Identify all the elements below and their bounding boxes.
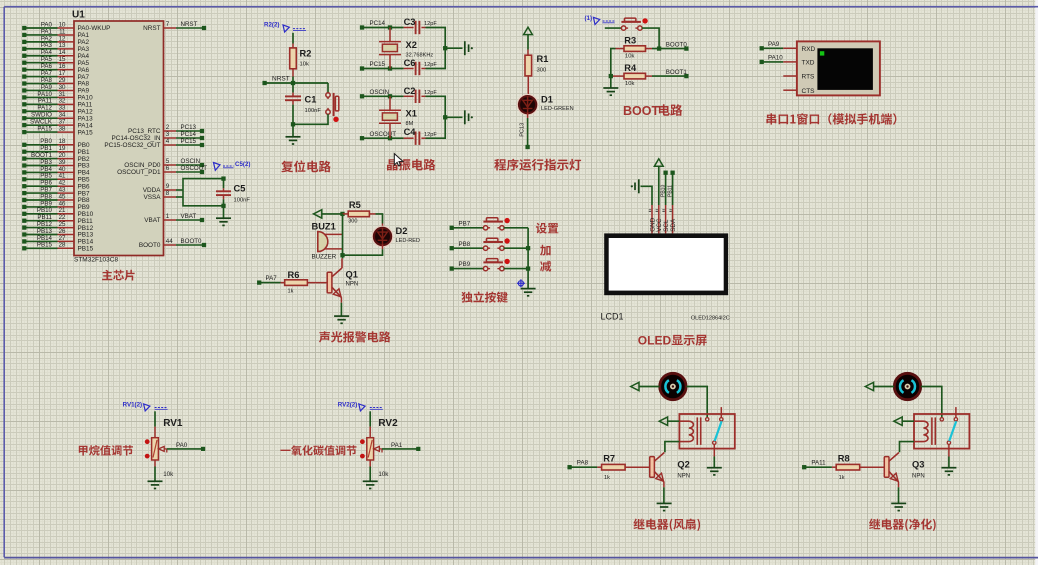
wires PC14/PC15 to X2 caps	[360, 20, 404, 70]
ground below C5	[216, 218, 231, 225]
svg-text:Q2: Q2	[677, 459, 689, 469]
wire R1 to D1	[527, 76, 529, 97]
svg-text:PB15: PB15	[78, 246, 94, 253]
label 串口1窗口（模拟手机端）	[766, 113, 896, 125]
svg-text:PA8: PA8	[41, 77, 53, 84]
wire R2 to NRST node	[292, 69, 294, 83]
capacitor C5 100nF	[216, 176, 250, 217]
svg-text:Q3: Q3	[912, 459, 924, 469]
svg-text:12pF: 12pF	[424, 90, 437, 96]
label 加	[540, 245, 551, 256]
svg-text:PA9: PA9	[768, 41, 780, 48]
wire button to C1 bottom	[293, 114, 328, 124]
svg-text:PA3: PA3	[41, 42, 53, 49]
svg-text:BUZ1: BUZ1	[312, 222, 336, 232]
capacitor C2 12pF	[404, 86, 438, 103]
svg-text:4: 4	[166, 138, 170, 145]
resistor R6 1k	[257, 270, 327, 295]
motor (fan) Q2	[660, 373, 686, 399]
svg-text:PC14: PC14	[181, 131, 197, 138]
wire buzzer column	[340, 214, 344, 257]
svg-text:C4: C4	[404, 127, 417, 137]
svg-text:VBAT: VBAT	[181, 213, 197, 220]
OLED display LCD1 body	[604, 233, 728, 295]
svg-text:OSCIN_PD0: OSCIN_PD0	[124, 162, 161, 169]
label OLED显示屏	[638, 334, 707, 348]
wire RV1 to ground	[154, 460, 156, 481]
push button PB8	[450, 238, 529, 250]
ground (BOOT divider)	[603, 88, 618, 95]
svg-text:PA2: PA2	[41, 35, 53, 42]
svg-text:PB7: PB7	[459, 220, 471, 227]
serial terminal (virtual) with screen	[797, 41, 880, 95]
svg-text:NPN: NPN	[677, 473, 690, 479]
transistor Q3 NPN	[884, 453, 924, 482]
svg-text:300: 300	[348, 218, 357, 224]
wire flag to RV1	[154, 411, 156, 437]
svg-text:RXD: RXD	[802, 46, 816, 53]
svg-text:LCD1: LCD1	[601, 312, 624, 322]
svg-text:C3: C3	[404, 17, 416, 27]
svg-text:C2: C2	[404, 86, 416, 96]
svg-text:C6: C6	[404, 58, 416, 68]
ground (relay Q2)	[707, 468, 722, 475]
label OLED12864I2C	[691, 316, 730, 322]
power arrow relay coil Q2	[659, 417, 679, 425]
U1 left pins PA0-PA15 PB0-PB15 with wires and net labels	[22, 21, 110, 252]
mouse cursor	[394, 154, 403, 166]
wires OSCIN/OSCOUT to X1 caps	[360, 89, 404, 140]
svg-text:OSCIN: OSCIN	[370, 89, 390, 96]
svg-text:RV1: RV1	[163, 418, 183, 429]
svg-text:OLED12864I2C: OLED12864I2C	[691, 316, 730, 322]
ground (Q1)	[334, 316, 349, 323]
capacitor C6 12pF	[404, 58, 438, 75]
resistor R3 10k	[616, 36, 653, 60]
svg-text:12pF: 12pF	[424, 62, 437, 68]
svg-text:10k: 10k	[163, 471, 174, 478]
svg-text:C5(2): C5(2)	[235, 161, 250, 168]
svg-text:PA2: PA2	[78, 39, 90, 46]
ground (Q2 emitter)	[657, 503, 672, 510]
label 减	[540, 261, 551, 272]
svg-text:30: 30	[59, 84, 66, 91]
transistor Q1 NPN	[327, 268, 358, 297]
diode D1 LED-GREEN	[517, 94, 574, 116]
svg-text:BOOT1: BOOT1	[666, 69, 688, 76]
svg-text:1k: 1k	[288, 289, 294, 295]
label 独立按键	[461, 292, 507, 303]
svg-text:PB9: PB9	[459, 261, 471, 268]
wire R3-R4 left rail	[611, 49, 616, 88]
svg-text:Q1: Q1	[346, 269, 358, 279]
push button PB7	[450, 218, 529, 230]
label 设置	[536, 223, 559, 234]
svg-text:PA7: PA7	[266, 275, 278, 282]
net BOOT1 wire	[652, 69, 689, 78]
svg-text:29: 29	[59, 77, 66, 84]
svg-text:12: 12	[59, 35, 66, 42]
svg-text:NRST: NRST	[181, 21, 198, 28]
crystal X2 32.768KHz	[379, 25, 433, 70]
power arrow (D1)	[524, 27, 533, 49]
svg-text:RV2: RV2	[378, 418, 398, 429]
svg-text:NPN: NPN	[912, 473, 925, 479]
wire flag to R2	[292, 33, 294, 48]
wire button to BOOT0 net	[642, 28, 659, 48]
ground (buttons)	[521, 289, 536, 296]
svg-text:1k: 1k	[839, 475, 845, 481]
push button PB9	[450, 259, 529, 271]
svg-text:10k: 10k	[300, 62, 309, 68]
wires PA9/PA10 to serial port	[760, 41, 797, 90]
svg-text:38: 38	[59, 126, 66, 133]
svg-text:PA10: PA10	[768, 54, 783, 61]
node buzzer top	[340, 212, 344, 216]
net NRST wire	[262, 75, 328, 85]
svg-text:28: 28	[59, 242, 66, 249]
label 一氧化碳值调节	[280, 445, 356, 455]
svg-text:100nF: 100nF	[305, 108, 322, 114]
svg-text:CTS: CTS	[802, 88, 816, 95]
svg-text:NRST: NRST	[143, 25, 160, 32]
svg-text:D1: D1	[541, 95, 553, 105]
ground (relay Q3)	[941, 468, 956, 475]
U1 right pins with nets NRST PC13-15 OSCIN OSCOUT VDDA VSSA VBAT BOOT0	[104, 21, 207, 249]
svg-text:100nF: 100nF	[234, 198, 251, 204]
wire C1 to ground	[292, 124, 294, 136]
capacitor C1 100nF	[285, 83, 321, 126]
svg-text:X1: X1	[406, 109, 417, 119]
crystal X1 8M	[379, 94, 417, 140]
svg-text:SDA: SDA	[670, 218, 677, 232]
net BOOT0 wire	[652, 42, 689, 51]
svg-text:RV1(2): RV1(2)	[123, 402, 143, 409]
resistor R7 1k	[567, 453, 649, 481]
svg-text:37: 37	[59, 119, 66, 126]
svg-text:VBAT: VBAT	[144, 217, 160, 224]
ground (RV1)	[148, 481, 163, 488]
wire OLED SDA net PB11	[667, 171, 674, 205]
svg-text:R5: R5	[349, 200, 361, 210]
svg-text:PA9: PA9	[41, 84, 53, 91]
power flag (1)	[584, 15, 614, 25]
svg-text:D2: D2	[396, 226, 408, 236]
svg-text:9: 9	[166, 183, 170, 190]
svg-text:OSCOUT_PD1: OSCOUT_PD1	[117, 169, 161, 176]
label 继电器(风扇)	[633, 519, 700, 532]
svg-text:10k: 10k	[378, 471, 389, 478]
svg-text:PA7: PA7	[78, 74, 90, 81]
svg-text:R8: R8	[838, 453, 850, 463]
resistor R4 10k	[609, 63, 652, 87]
capacitor C4 12pF	[404, 127, 438, 145]
svg-text:PB10: PB10	[660, 185, 666, 197]
svg-text:PC13: PC13	[181, 124, 197, 131]
svg-text:C1: C1	[305, 95, 317, 105]
svg-text:STM32F103C8: STM32F103C8	[74, 257, 118, 264]
power arrow left of motor Q3	[865, 382, 894, 390]
power arrow relay coil Q3	[894, 417, 914, 425]
ground below C1	[286, 137, 301, 144]
wire flag to boot button	[605, 27, 622, 29]
svg-text:NPN: NPN	[346, 281, 359, 287]
svg-text:1: 1	[166, 213, 170, 220]
wire Q1 emitter to ground	[340, 297, 342, 315]
svg-text:R4: R4	[624, 63, 637, 73]
svg-text:PB11: PB11	[667, 185, 673, 197]
svg-text:6: 6	[166, 165, 170, 172]
svg-text:PC15-OSC32_OUT: PC15-OSC32_OUT	[104, 142, 160, 149]
svg-text:PA1: PA1	[391, 442, 403, 449]
wire D2 to node	[343, 245, 383, 256]
wire RV2 to ground	[369, 460, 371, 481]
microcontroller U1 STM32F103C8 body	[72, 10, 164, 264]
svg-text:RTS: RTS	[802, 74, 816, 81]
svg-text:(1): (1)	[584, 15, 592, 22]
wire relay common to ground Q2	[713, 444, 715, 467]
push button (reset)	[326, 93, 339, 122]
ground (RV2)	[363, 481, 378, 488]
wire OLED SCL net PB10	[660, 171, 667, 205]
svg-text:PC13: PC13	[520, 123, 526, 137]
svg-text:R1: R1	[537, 54, 549, 64]
svg-text:R3: R3	[624, 36, 636, 46]
OLED pins GND VCC SCL SDA	[649, 205, 677, 233]
svg-text:R7: R7	[603, 453, 615, 463]
power flag C5(2)	[214, 161, 251, 171]
svg-text:SWCLK: SWCLK	[30, 119, 53, 126]
svg-text:R6: R6	[288, 270, 300, 280]
sideways ground (OLED)	[631, 179, 639, 193]
svg-text:PA8: PA8	[577, 460, 589, 467]
svg-text:PC15: PC15	[370, 61, 386, 68]
svg-text:2: 2	[166, 124, 170, 131]
relay Q2	[679, 407, 734, 449]
wire D1 to PC13	[520, 113, 530, 149]
wire RV2 wiper to PA1	[382, 442, 420, 451]
svg-text:PA1: PA1	[78, 32, 90, 39]
power flag RV1(2)	[123, 402, 168, 411]
origin marker (blue)	[517, 279, 525, 287]
svg-text:10k: 10k	[625, 53, 634, 59]
wire OLED GND to side ground	[641, 186, 653, 205]
svg-text:R2: R2	[300, 49, 312, 59]
potentiometer RV1 10k	[145, 418, 183, 478]
svg-text:PB8: PB8	[459, 241, 471, 248]
wire NRST to button	[327, 83, 329, 93]
svg-text:8: 8	[166, 190, 170, 197]
motor (fan) Q3	[894, 373, 920, 399]
resistor R2 10k	[290, 48, 312, 69]
label 晶振电路	[387, 159, 435, 171]
svg-text:OLED: OLED	[638, 334, 672, 348]
svg-text:OSCOUT: OSCOUT	[370, 131, 397, 138]
svg-text:R2(2): R2(2)	[264, 22, 279, 29]
wire R5 to D2	[376, 214, 383, 229]
svg-text:12pF: 12pF	[424, 21, 437, 27]
wire coil to Q3 collector	[900, 442, 915, 453]
svg-text:PA0: PA0	[176, 442, 188, 449]
wire coil to Q2 collector	[665, 442, 680, 453]
buzzer BUZ1	[312, 222, 343, 261]
svg-text:VDDA: VDDA	[143, 187, 161, 194]
relay Q3	[914, 407, 969, 449]
power arrow left of motor Q2	[631, 382, 660, 390]
svg-text:VSSA: VSSA	[143, 194, 161, 201]
svg-text:PB15: PB15	[37, 242, 53, 249]
svg-text:OSCIN: OSCIN	[181, 158, 201, 165]
svg-text:3: 3	[166, 131, 170, 138]
svg-text:PA8: PA8	[78, 81, 90, 88]
wire VDDA/VSSA to C5	[176, 179, 224, 206]
wire motor to relay Q3	[921, 387, 942, 418]
svg-text:PC14: PC14	[370, 20, 386, 27]
svg-text:PC15: PC15	[181, 138, 197, 145]
svg-text:PA14: PA14	[78, 122, 94, 129]
svg-text:BUZZER: BUZZER	[312, 253, 337, 260]
svg-text:PA13: PA13	[78, 115, 94, 122]
wire flag to RV2	[369, 411, 371, 437]
svg-text:12pF: 12pF	[424, 132, 437, 138]
svg-text:LED-RED: LED-RED	[396, 238, 421, 244]
svg-text:PC14-OSC32_IN: PC14-OSC32_IN	[111, 135, 160, 142]
diode D2 LED-RED	[372, 226, 420, 248]
svg-text:1k: 1k	[604, 475, 610, 481]
wire motor to relay Q2	[686, 387, 707, 418]
svg-text:RV2(2): RV2(2)	[338, 402, 358, 409]
label 声光报警电路	[319, 331, 391, 342]
wire relay common to ground Q3	[948, 444, 950, 467]
svg-text:SCL: SCL	[663, 219, 670, 232]
label LCD1	[601, 312, 624, 322]
svg-text:7: 7	[166, 21, 170, 28]
svg-text:X2: X2	[406, 40, 417, 50]
capacitor C3 12pF	[404, 17, 438, 34]
svg-text:LED-GREEN: LED-GREEN	[541, 106, 574, 112]
svg-text:BOOT0: BOOT0	[181, 238, 203, 245]
power arrow (OLED VCC)	[654, 159, 663, 205]
resistor R5 300	[343, 200, 376, 224]
label BOOT电路	[623, 104, 682, 118]
label 甲烷值调节	[79, 445, 133, 456]
svg-text:C5: C5	[234, 184, 246, 194]
wire RV1 wiper to PA0	[167, 442, 205, 451]
svg-text:PA15: PA15	[37, 126, 52, 133]
resistor R1 300	[525, 50, 548, 76]
svg-text:BOOT0: BOOT0	[139, 242, 161, 249]
ground (Q3 emitter)	[891, 503, 906, 510]
wire X1 caps to ground rail	[426, 96, 463, 138]
U1 label 主芯片	[102, 270, 135, 281]
sideways ground (X1)	[465, 110, 473, 124]
label 继电器(净化)	[869, 519, 936, 532]
svg-text:13: 13	[59, 42, 66, 49]
wire Q3 emitter to ground	[898, 482, 900, 503]
power arrow (buzzer)	[314, 210, 343, 218]
svg-text:5: 5	[166, 158, 170, 165]
resistor R8 1k	[802, 453, 884, 481]
label 程序运行指示灯	[494, 159, 581, 171]
power flag R2(2)	[264, 22, 306, 32]
svg-text:NRST: NRST	[272, 75, 290, 82]
svg-text:PA11: PA11	[811, 460, 826, 467]
push button (BOOT0)	[621, 18, 647, 30]
wire X2 caps to ground rail	[426, 28, 463, 69]
svg-text:BOOT0: BOOT0	[666, 42, 688, 49]
wire Q2 emitter to ground	[663, 482, 665, 503]
svg-text:44: 44	[166, 238, 173, 245]
buttons common wire to ground	[526, 228, 530, 288]
wire node to Q1 collector	[341, 255, 344, 268]
label 复位电路	[281, 160, 331, 172]
svg-text:BOOT: BOOT	[623, 104, 659, 118]
svg-text:U1: U1	[72, 10, 85, 21]
sideways ground (X2)	[465, 41, 473, 55]
transistor Q2 NPN	[650, 453, 690, 482]
svg-text:10k: 10k	[625, 81, 634, 87]
potentiometer RV2 10k	[360, 418, 398, 478]
svg-text:PC13_RTC: PC13_RTC	[128, 128, 161, 135]
svg-text:TXD: TXD	[802, 60, 815, 67]
svg-text:PA15: PA15	[78, 129, 94, 136]
svg-text:300: 300	[537, 68, 547, 74]
power flag RV2(2)	[338, 402, 383, 411]
